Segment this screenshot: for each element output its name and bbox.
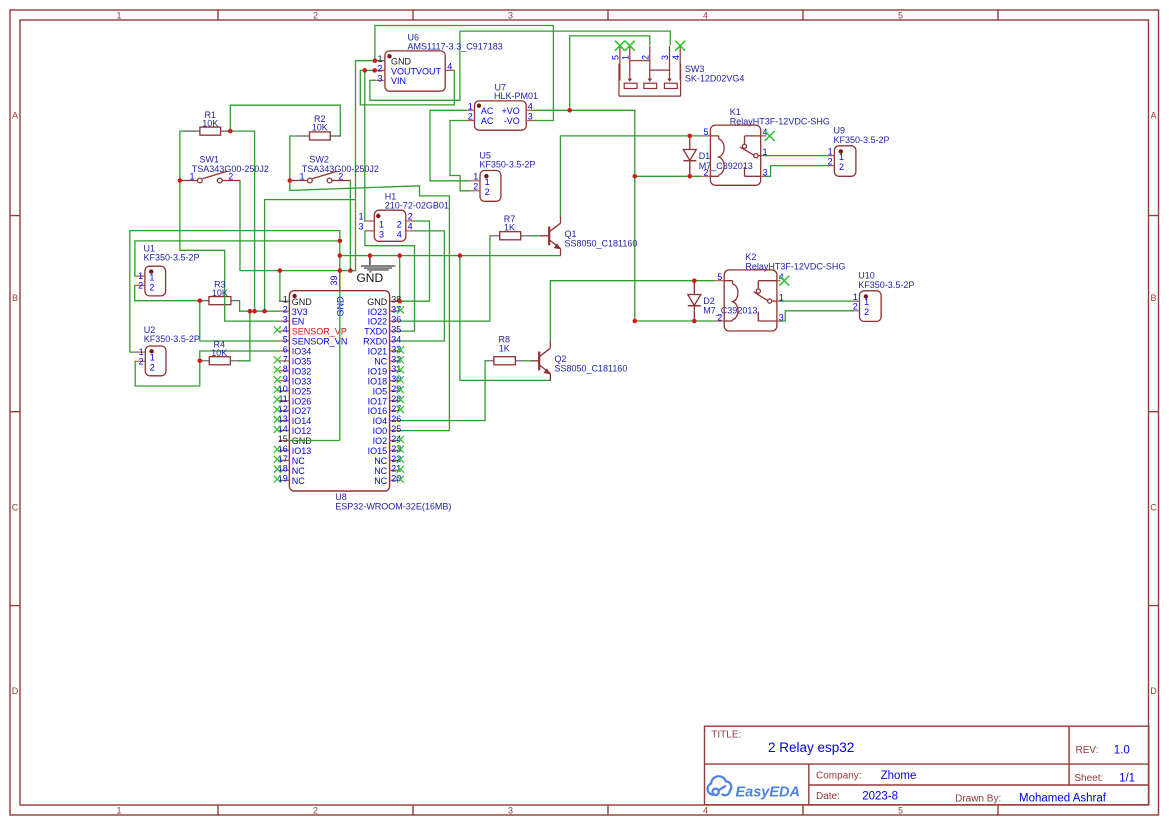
svg-text:D2: D2 bbox=[703, 296, 715, 306]
svg-text:2: 2 bbox=[138, 281, 143, 291]
junction bus1 / GND symbol bbox=[368, 253, 373, 258]
svg-text:NC: NC bbox=[374, 476, 387, 486]
svg-text:2: 2 bbox=[485, 187, 490, 197]
svg-text:5: 5 bbox=[283, 334, 288, 344]
svg-text:4: 4 bbox=[283, 324, 288, 334]
svg-text:ESP32-WROOM-32E(16MB): ESP32-WROOM-32E(16MB) bbox=[335, 501, 451, 511]
wire net IO22 to R7 bbox=[400, 236, 490, 321]
svg-text:3: 3 bbox=[377, 73, 382, 83]
svg-text:A: A bbox=[12, 111, 18, 121]
svg-text:2: 2 bbox=[473, 182, 478, 192]
svg-text:2: 2 bbox=[853, 302, 858, 312]
svg-text:1: 1 bbox=[763, 147, 768, 157]
svg-text:Date:: Date: bbox=[816, 791, 840, 802]
wire net U6.1/-VO top link bbox=[356, 26, 554, 271]
resistor R3 bbox=[203, 279, 240, 304]
svg-text:IO5: IO5 bbox=[373, 386, 388, 396]
svg-text:IO2: IO2 bbox=[373, 436, 388, 446]
svg-text:-VO: -VO bbox=[504, 116, 520, 126]
svg-text:Sheet:: Sheet: bbox=[1074, 773, 1103, 784]
junction D1 cathode / K1.5 bbox=[688, 134, 693, 139]
svg-text:KF350-3.5-2P: KF350-3.5-2P bbox=[144, 253, 200, 263]
svg-text:RelayHT3F-12VDC-SHG: RelayHT3F-12VDC-SHG bbox=[730, 117, 830, 127]
title block texts bbox=[711, 730, 1135, 805]
svg-text:Mohamed Ashraf: Mohamed Ashraf bbox=[1019, 793, 1107, 805]
title block frame bbox=[705, 726, 1149, 805]
svg-text:35: 35 bbox=[391, 324, 401, 334]
svg-text:13: 13 bbox=[278, 414, 288, 424]
junction bus2 / SW2.2 bbox=[348, 268, 353, 273]
svg-text:2: 2 bbox=[717, 312, 722, 322]
svg-text:SS8050_C181160: SS8050_C181160 bbox=[565, 239, 638, 249]
svg-text:NC: NC bbox=[374, 466, 387, 476]
svg-text:4: 4 bbox=[447, 62, 452, 72]
junction pin38 GND bbox=[397, 299, 402, 304]
junction 3V3 row / R4 bbox=[248, 309, 253, 314]
svg-text:3: 3 bbox=[379, 229, 384, 239]
svg-text:2: 2 bbox=[468, 112, 473, 122]
svg-text:210-72-02GB01: 210-72-02GB01 bbox=[385, 200, 449, 210]
junction bus1 / Q2 emitter riser bbox=[458, 253, 463, 258]
svg-text:8: 8 bbox=[283, 364, 288, 374]
svg-text:M7_C392013: M7_C392013 bbox=[703, 306, 757, 316]
svg-text:15: 15 bbox=[278, 434, 288, 444]
resistor R1 bbox=[185, 110, 230, 135]
svg-text:IO22: IO22 bbox=[368, 317, 388, 327]
svg-text:AMS1117-3.3_C917183: AMS1117-3.3_C917183 bbox=[408, 42, 503, 52]
switch SW2 bbox=[290, 155, 379, 183]
svg-text:Company:: Company: bbox=[816, 771, 862, 782]
svg-text:Zhome: Zhome bbox=[881, 770, 917, 782]
svg-text:NC: NC bbox=[292, 476, 305, 486]
wire pin39 overlap olive bbox=[339, 268, 341, 291]
wire net 3V3 branch to ESP32 bbox=[265, 200, 356, 312]
svg-text:2: 2 bbox=[150, 362, 155, 372]
svg-text:IO4: IO4 bbox=[373, 416, 388, 426]
header H1 bbox=[358, 191, 448, 241]
wire net GND pin38 to H1.2 bbox=[400, 221, 430, 301]
svg-text:GND: GND bbox=[336, 296, 346, 317]
svg-text:HLK-PM01: HLK-PM01 bbox=[494, 91, 538, 101]
svg-text:3: 3 bbox=[779, 312, 784, 322]
svg-text:17: 17 bbox=[278, 454, 288, 464]
wire R3 left link bbox=[200, 300, 203, 302]
svg-text:1: 1 bbox=[779, 293, 784, 303]
svg-text:NC: NC bbox=[292, 466, 305, 476]
wire net GND to Q2 emitter bbox=[460, 256, 550, 381]
svg-text:IO15: IO15 bbox=[368, 446, 388, 456]
svg-text:SENSOR_VN: SENSOR_VN bbox=[292, 337, 348, 347]
svg-text:1: 1 bbox=[116, 806, 121, 816]
connector U1 bbox=[135, 244, 199, 296]
wire net EN / SW1 / R1 bbox=[180, 131, 279, 321]
wire net VOUT tie U6 pins 2-4 bbox=[360, 70, 454, 105]
svg-text:34: 34 bbox=[391, 334, 401, 344]
svg-text:1: 1 bbox=[864, 297, 869, 307]
svg-text:3: 3 bbox=[508, 806, 513, 816]
junction U6 VOUT right bbox=[372, 68, 377, 73]
svg-text:1K: 1K bbox=[504, 222, 515, 232]
svg-text:AC: AC bbox=[481, 116, 494, 126]
svg-text:AC: AC bbox=[481, 106, 494, 116]
svg-text:SS8050_C181160: SS8050_C181160 bbox=[555, 364, 628, 374]
junction D1 anode / K1.2 bbox=[688, 174, 693, 179]
svg-text:5: 5 bbox=[898, 806, 903, 816]
svg-text:B: B bbox=[12, 293, 18, 303]
svg-text:1: 1 bbox=[149, 273, 154, 283]
svg-text:2: 2 bbox=[828, 156, 833, 166]
svg-text:IO17: IO17 bbox=[368, 396, 388, 406]
svg-text:2 Relay esp32: 2 Relay esp32 bbox=[768, 740, 854, 755]
wire GND riser over U8 body bbox=[289, 291, 339, 441]
svg-text:3: 3 bbox=[660, 55, 670, 60]
wire K2.3 to U10.2 bbox=[780, 311, 853, 321]
svg-text:5: 5 bbox=[611, 55, 621, 60]
svg-text:1: 1 bbox=[116, 11, 121, 21]
wire net SW2.2 to GND bbox=[349, 181, 351, 271]
no-connect X marks on U8 pins bbox=[274, 307, 404, 483]
wire net TXD0 to H1.3 bbox=[365, 231, 415, 331]
junction GND riser / bus1 bbox=[338, 253, 343, 258]
junction 3V3 row / R1R2 bbox=[252, 309, 257, 314]
svg-text:IO19: IO19 bbox=[368, 366, 388, 376]
junction R1 / R2 pullup top bbox=[228, 129, 233, 134]
junction GND riser / U1U2 wire bbox=[338, 239, 343, 244]
svg-text:IO32: IO32 bbox=[292, 366, 312, 376]
svg-text:2: 2 bbox=[408, 212, 413, 222]
svg-text:10: 10 bbox=[278, 384, 288, 394]
svg-text:GND: GND bbox=[356, 271, 383, 285]
svg-text:IO35: IO35 bbox=[292, 357, 312, 367]
svg-text:3: 3 bbox=[528, 112, 533, 122]
wire net 3V3 pullup tops R1 R2 bbox=[230, 105, 340, 311]
connector U10 bbox=[853, 271, 915, 322]
svg-text:B: B bbox=[1150, 293, 1156, 303]
resistor R8 bbox=[485, 335, 524, 365]
svg-text:3V3: 3V3 bbox=[292, 307, 308, 317]
svg-text:2: 2 bbox=[149, 282, 154, 292]
wire R8 lead link bbox=[524, 360, 531, 362]
connector U5 bbox=[470, 151, 535, 202]
wire net IO0 / SW2.1 / R2 bbox=[290, 136, 450, 431]
svg-text:VIN: VIN bbox=[391, 76, 406, 86]
wire net GND riser through U8 to pin15 bbox=[289, 231, 339, 441]
svg-text:4: 4 bbox=[397, 229, 402, 239]
svg-text:4: 4 bbox=[408, 221, 413, 231]
power module U7 bbox=[466, 82, 538, 130]
svg-text:6: 6 bbox=[283, 344, 288, 354]
svg-text:GND: GND bbox=[367, 297, 388, 307]
wire net IO34 / R4 / U2.2 bbox=[135, 351, 279, 386]
svg-text:+VO: +VO bbox=[502, 106, 520, 116]
diode D2 bbox=[688, 282, 701, 320]
wire net +VO to SW3 and relay coils bbox=[535, 36, 715, 321]
transistor Q2 bbox=[531, 342, 551, 381]
svg-text:KF350-3.5-2P: KF350-3.5-2P bbox=[479, 160, 535, 170]
wire net SENSOR_VN / R3 / U1.2 bbox=[135, 285, 279, 341]
diode D1 bbox=[683, 137, 696, 175]
svg-text:IO18: IO18 bbox=[368, 376, 388, 386]
svg-text:1: 1 bbox=[358, 212, 363, 222]
svg-text:39: 39 bbox=[329, 275, 339, 285]
svg-text:IO23: IO23 bbox=[368, 307, 388, 317]
junction D2 cathode / K2.5 bbox=[692, 278, 697, 283]
svg-text:2: 2 bbox=[640, 55, 650, 60]
svg-text:1: 1 bbox=[468, 101, 473, 111]
svg-text:2: 2 bbox=[839, 162, 844, 172]
svg-text:3: 3 bbox=[763, 168, 768, 178]
junction D2 anode / K2.2 bbox=[692, 319, 697, 324]
svg-text:19: 19 bbox=[278, 474, 288, 484]
svg-text:IO14: IO14 bbox=[292, 416, 312, 426]
wire net GND lower bus to U8 pin1 bbox=[240, 181, 356, 302]
svg-text:VOUTVOUT: VOUTVOUT bbox=[391, 66, 442, 76]
svg-text:1: 1 bbox=[620, 55, 630, 60]
svg-text:IO12: IO12 bbox=[292, 426, 312, 436]
slide switch SW3 bbox=[619, 46, 681, 96]
wire net K2.5 / D2 / Q2 collector bbox=[550, 281, 714, 342]
wire net R4 riser to 3V3 bbox=[240, 311, 250, 361]
EasyEDA logo bbox=[707, 776, 731, 795]
svg-text:KF350-3.5-2P: KF350-3.5-2P bbox=[858, 280, 914, 290]
relay K1 bbox=[701, 107, 830, 185]
svg-text:4: 4 bbox=[671, 55, 681, 60]
svg-text:D: D bbox=[12, 686, 19, 696]
svg-text:10K: 10K bbox=[312, 123, 328, 133]
junction R3 / U1.2 / SENSOR_VN bbox=[198, 298, 203, 303]
svg-text:5: 5 bbox=[717, 272, 722, 282]
svg-text:14: 14 bbox=[278, 424, 288, 434]
svg-text:4: 4 bbox=[703, 806, 708, 816]
svg-text:NC: NC bbox=[374, 357, 387, 367]
svg-text:GND: GND bbox=[292, 297, 313, 307]
ESP32 module U8 bbox=[278, 275, 452, 511]
svg-text:1: 1 bbox=[839, 152, 844, 162]
svg-text:26: 26 bbox=[391, 414, 401, 424]
svg-text:IO0: IO0 bbox=[373, 426, 388, 436]
svg-text:2: 2 bbox=[703, 168, 708, 178]
svg-text:SENSOR_VP: SENSOR_VP bbox=[292, 327, 347, 337]
svg-text:25: 25 bbox=[391, 424, 401, 434]
junction +VO node bbox=[567, 108, 572, 113]
junction SW2.1 / R2 / IO0 bbox=[288, 178, 293, 183]
svg-text:4: 4 bbox=[528, 101, 533, 111]
svg-text:TSA343G00-250J2: TSA343G00-250J2 bbox=[302, 164, 379, 174]
relay K2 bbox=[714, 252, 845, 331]
svg-text:3: 3 bbox=[508, 11, 513, 21]
svg-text:5: 5 bbox=[703, 127, 708, 137]
svg-text:3: 3 bbox=[358, 221, 363, 231]
svg-text:2: 2 bbox=[313, 806, 318, 816]
svg-text:9: 9 bbox=[283, 374, 288, 384]
wire K1.3 to U9.2 bbox=[764, 166, 828, 177]
svg-text:2: 2 bbox=[864, 307, 869, 317]
junction U6 pin1 / -VO bbox=[373, 58, 378, 63]
svg-text:12: 12 bbox=[278, 404, 288, 414]
wire net VIN from SW3 bbox=[370, 31, 670, 100]
wire net U5.1 to U7.1 bbox=[430, 110, 470, 181]
svg-text:1: 1 bbox=[853, 292, 858, 302]
junction +VO branch K2.2 bbox=[633, 319, 638, 324]
svg-text:1: 1 bbox=[283, 295, 288, 305]
junction U6 VOUT left bbox=[363, 68, 368, 73]
svg-text:10K: 10K bbox=[211, 348, 227, 358]
junction GND riser / bus2 bbox=[338, 268, 343, 273]
svg-text:2: 2 bbox=[397, 219, 402, 229]
wire net U5.2 to U7.2 bbox=[450, 121, 470, 191]
svg-text:5: 5 bbox=[898, 11, 903, 21]
svg-text:IO16: IO16 bbox=[368, 406, 388, 416]
svg-text:1: 1 bbox=[485, 177, 490, 187]
svg-text:16: 16 bbox=[278, 444, 288, 454]
svg-text:TITLE:: TITLE: bbox=[711, 730, 741, 741]
svg-text:TSA343G00-250J2: TSA343G00-250J2 bbox=[192, 164, 269, 174]
wire net IO4 to R8 bbox=[400, 361, 485, 421]
svg-text:C: C bbox=[1150, 503, 1157, 513]
no-connect X K1.4 K2.4 and SW3 bbox=[615, 41, 789, 286]
svg-text:TXD0: TXD0 bbox=[364, 327, 387, 337]
svg-text:1: 1 bbox=[150, 352, 155, 362]
svg-text:10K: 10K bbox=[212, 288, 228, 298]
resistor R7 bbox=[490, 214, 531, 240]
regulator U6 bbox=[375, 33, 503, 91]
wire K2.1 to U10.1 bbox=[780, 300, 853, 302]
svg-text:KF350-3.5-2P: KF350-3.5-2P bbox=[144, 334, 200, 344]
svg-text:D1: D1 bbox=[699, 151, 711, 161]
svg-text:EasyEDA: EasyEDA bbox=[736, 785, 800, 801]
svg-text:IO25: IO25 bbox=[292, 386, 312, 396]
svg-text:IO21: IO21 bbox=[368, 347, 388, 357]
svg-text:2: 2 bbox=[283, 305, 288, 315]
svg-text:10K: 10K bbox=[202, 119, 218, 129]
connector U2 bbox=[135, 325, 200, 376]
junction R4 / U2.2 / IO34 bbox=[198, 359, 203, 364]
svg-text:D: D bbox=[1150, 686, 1157, 696]
svg-text:IO27: IO27 bbox=[292, 406, 312, 416]
svg-text:IO33: IO33 bbox=[292, 376, 312, 386]
resistor R4 bbox=[203, 339, 240, 364]
svg-text:SW3: SW3 bbox=[685, 64, 705, 74]
svg-text:A: A bbox=[1150, 111, 1156, 121]
svg-text:NC: NC bbox=[292, 456, 305, 466]
svg-text:IO34: IO34 bbox=[292, 347, 312, 357]
svg-text:4: 4 bbox=[703, 11, 708, 21]
wire net 3V3 row to U8 pin2 bbox=[240, 301, 279, 312]
svg-text:1: 1 bbox=[473, 172, 478, 182]
svg-text:NC: NC bbox=[374, 456, 387, 466]
transistor Q1 bbox=[540, 217, 561, 256]
connector U9 bbox=[828, 126, 890, 177]
svg-text:EN: EN bbox=[292, 317, 305, 327]
svg-text:C: C bbox=[12, 503, 19, 513]
svg-text:RelayHT3F-12VDC-SHG: RelayHT3F-12VDC-SHG bbox=[745, 261, 845, 271]
svg-text:Drawn By:: Drawn By: bbox=[955, 793, 1001, 804]
junction 3V3 row / U6.1 bbox=[262, 309, 267, 314]
svg-text:KF350-3.5-2P: KF350-3.5-2P bbox=[834, 135, 890, 145]
svg-text:2023-8: 2023-8 bbox=[862, 791, 898, 803]
svg-text:2: 2 bbox=[313, 11, 318, 21]
wire R7 lead link bbox=[531, 235, 540, 237]
svg-text:1K: 1K bbox=[499, 343, 510, 353]
wire net RXD0 to H1.4 bbox=[400, 231, 444, 341]
svg-text:IO26: IO26 bbox=[292, 396, 312, 406]
junction +VO branch K1.2 bbox=[633, 174, 638, 179]
svg-text:3: 3 bbox=[283, 315, 288, 325]
svg-text:1/1: 1/1 bbox=[1119, 773, 1135, 785]
wire net GND bus bbox=[340, 255, 560, 257]
wire EN riser over R3 body bbox=[224, 296, 226, 306]
svg-text:2: 2 bbox=[139, 357, 144, 367]
wire K1.1 to U9.1 bbox=[764, 155, 828, 157]
resistor R2 bbox=[297, 114, 340, 140]
wire net VOUT riser to H1 pin1 bbox=[364, 70, 366, 221]
svg-text:1: 1 bbox=[377, 54, 382, 64]
junction bus1 / pin38 riser bbox=[397, 253, 402, 258]
svg-text:7: 7 bbox=[283, 354, 288, 364]
svg-text:GND: GND bbox=[391, 57, 412, 67]
junction bus2 / U8 pin1 bbox=[278, 268, 283, 273]
wire net GND U1.1 U2.1 bbox=[130, 231, 340, 353]
svg-text:1.0: 1.0 bbox=[1114, 744, 1130, 756]
svg-text:2: 2 bbox=[377, 64, 382, 74]
svg-text:18: 18 bbox=[278, 464, 288, 474]
junction SW1.1 / R1 / EN bbox=[178, 178, 183, 183]
svg-text:1: 1 bbox=[379, 219, 384, 229]
wire R4 left link bbox=[200, 360, 203, 362]
svg-text:IO13: IO13 bbox=[292, 446, 312, 456]
svg-text:SK-12D02VG4: SK-12D02VG4 bbox=[685, 74, 745, 84]
svg-text:RXD0: RXD0 bbox=[363, 337, 387, 347]
ground symbol GND bbox=[356, 256, 395, 285]
svg-text:1: 1 bbox=[828, 146, 833, 156]
switch SW1 bbox=[180, 155, 269, 183]
wire net K1.5 / D1 / Q1 collector bbox=[560, 136, 700, 217]
svg-text:36: 36 bbox=[391, 315, 401, 325]
svg-text:REV:: REV: bbox=[1076, 745, 1099, 756]
